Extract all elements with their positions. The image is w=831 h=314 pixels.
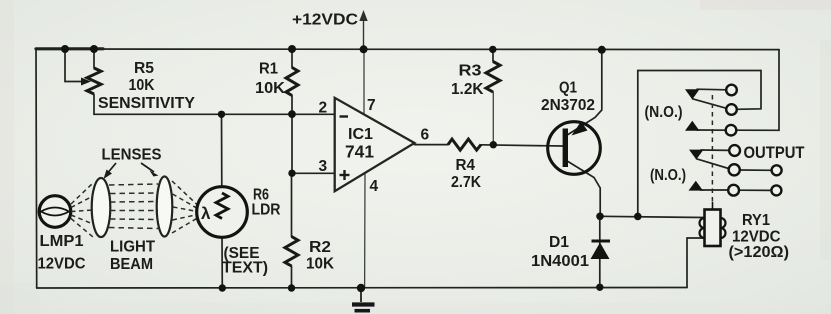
contact circle A: [726, 85, 737, 96]
wire top rail: [36, 48, 779, 51]
wire R5 bottom + pin2 run: [94, 95, 335, 115]
svg-text:1N4001: 1N4001: [531, 253, 589, 270]
contact circle H: [771, 185, 781, 195]
contact circle C: [726, 125, 737, 136]
wire R3 bottom: [492, 92, 494, 145]
lens 1: [92, 178, 111, 237]
svg-text:R5: R5: [134, 60, 154, 77]
relay contact pole 1 lower arm: [685, 121, 700, 131]
svg-text:10K: 10K: [306, 256, 334, 273]
wire F to H: [739, 189, 771, 191]
svg-text:10K: 10K: [129, 77, 155, 94]
relay contact pole 2 arm: [689, 150, 704, 160]
svg-text:LDR: LDR: [252, 202, 281, 219]
wire R5 top: [93, 49, 95, 68]
light beam rays lens2 to LDR: [172, 181, 198, 233]
svg-text:3: 3: [319, 158, 328, 175]
svg-text:10K: 10K: [255, 80, 285, 97]
lens arrow left: [104, 163, 117, 179]
relay contact pole 1 arm: [685, 89, 700, 99]
svg-text:741: 741: [345, 142, 374, 162]
lens 2: [157, 177, 173, 237]
svg-text:D1: D1: [549, 234, 569, 251]
resistor R5: [87, 68, 101, 94]
wire opamp output: [415, 144, 449, 146]
wire top-right drop to contact C: [736, 50, 779, 131]
svg-text:R3: R3: [459, 63, 482, 80]
svg-text:LMP1: LMP1: [40, 233, 84, 250]
wire LDR top: [221, 114, 223, 188]
wire top rail heavy left segment: [36, 47, 103, 50]
wire Q1 emitter up: [568, 50, 602, 135]
svg-text:RY1: RY1: [742, 212, 770, 229]
transistor Q1: [548, 122, 601, 175]
relay coil RY1: [700, 202, 726, 246]
svg-text:+12VDC: +12VDC: [292, 12, 358, 29]
relay linkage dashed: [711, 95, 713, 202]
svg-text:(N.O.): (N.O.): [645, 104, 683, 121]
svg-text:4: 4: [370, 178, 379, 195]
wire LDR bottom: [221, 236, 223, 288]
svg-text:IC1: IC1: [348, 126, 373, 143]
svg-text:LENSES: LENSES: [102, 147, 162, 164]
svg-text:LIGHT: LIGHT: [110, 239, 155, 256]
wire contact B loop: [638, 71, 761, 217]
wire R1 bottom / mid column: [291, 96, 293, 174]
svg-text:R2: R2: [309, 239, 331, 256]
lens arrow right: [141, 163, 159, 177]
svg-text:λ: λ: [201, 204, 211, 223]
svg-text:2N3702: 2N3702: [541, 97, 595, 114]
contact circle G: [772, 165, 782, 175]
svg-text:OUTPUT: OUTPUT: [744, 144, 805, 162]
wire pin4 ground: [364, 174, 366, 288]
resistor R2: [285, 237, 298, 267]
light beam rays lamp to lens1: [71, 183, 93, 237]
wire collector to relay: [600, 216, 704, 217]
resistor R3: [486, 62, 500, 93]
contact circle E: [729, 164, 740, 175]
LDR R6: [197, 187, 248, 238]
svg-text:Q1: Q1: [559, 80, 577, 97]
wire bottom rail: [37, 287, 687, 290]
contact circle F: [728, 185, 739, 196]
wire pole1 blade: [693, 99, 727, 109]
svg-text:SENSITIVITY: SENSITIVITY: [98, 95, 195, 112]
svg-text:R4: R4: [456, 157, 476, 174]
svg-text:2: 2: [319, 100, 328, 117]
contact circle D: [729, 145, 740, 156]
wire pole2 lower to F: [701, 189, 729, 191]
wire +12VDC stem: [363, 17, 365, 49]
svg-text:1.2K: 1.2K: [451, 81, 484, 98]
diode D1: [591, 241, 611, 259]
+12VDC arrow: [359, 10, 367, 21]
wire pin3: [292, 172, 335, 174]
wire pin7 supply: [363, 49, 365, 113]
svg-text:2.7K: 2.7K: [451, 174, 481, 191]
svg-text:(>120Ω): (>120Ω): [729, 244, 790, 261]
lamp LMP1: [39, 196, 71, 228]
contact circle B: [726, 104, 737, 115]
wire pole2 arm to D: [701, 149, 729, 151]
wire D1 column: [599, 216, 601, 287]
svg-text:TEXT): TEXT): [222, 260, 268, 277]
relay contact pole 2 lower arm: [689, 181, 704, 191]
svg-text:(N.O.): (N.O.): [650, 167, 686, 184]
wire E to G: [740, 169, 772, 171]
wire R4 to base: [481, 145, 563, 146]
svg-text:6: 6: [421, 127, 430, 144]
resistor R1: [286, 68, 298, 96]
ground: [352, 288, 375, 311]
wire left border: [35, 49, 38, 288]
wire R3 top: [492, 49, 494, 61]
op-amp IC1: [335, 98, 415, 191]
light beam parallel rays: [109, 184, 158, 229]
svg-text:12VDC: 12VDC: [38, 256, 86, 273]
wire pole2 blade: [697, 159, 729, 169]
svg-text:7: 7: [367, 97, 376, 114]
wire R2 bottom: [291, 266, 293, 288]
wire R2 top: [291, 173, 293, 236]
wire R1 top: [291, 49, 293, 68]
wire pole1 arm to A: [697, 88, 726, 91]
svg-text:R1: R1: [259, 61, 278, 78]
wire Q1 collector down: [568, 162, 600, 217]
svg-text:12VDC: 12VDC: [732, 229, 781, 246]
wire R5 wiper: [65, 49, 84, 82]
svg-text:BEAM: BEAM: [110, 256, 153, 273]
wire rail right drop to relay: [687, 238, 704, 288]
wire pole1 lower to C: [697, 129, 726, 131]
resistor R4: [448, 139, 481, 150]
potentiometer arrow R5: [81, 78, 91, 86]
